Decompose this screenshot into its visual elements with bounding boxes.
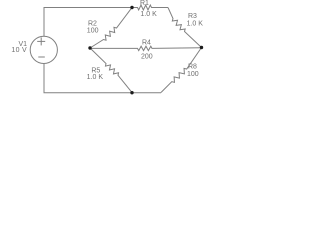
resistor R1 xyxy=(132,5,168,10)
label R3 value xyxy=(187,13,204,28)
wire top from V1 to node A xyxy=(44,8,132,37)
label V1 value xyxy=(11,41,27,54)
svg-text:1.0 K: 1.0 K xyxy=(187,21,204,28)
label R4 value xyxy=(141,40,153,61)
svg-text:R1: R1 xyxy=(140,0,149,7)
node D junction dot xyxy=(130,91,133,94)
svg-text:10 V: 10 V xyxy=(11,47,27,54)
svg-text:R4: R4 xyxy=(142,40,151,47)
svg-text:100: 100 xyxy=(187,71,199,78)
svg-text:200: 200 xyxy=(141,54,153,61)
svg-text:100: 100 xyxy=(87,28,99,35)
label R2 value xyxy=(87,20,99,34)
resistor R2 xyxy=(90,8,132,49)
label R8 value xyxy=(187,64,199,79)
resistor R4 xyxy=(90,46,202,50)
svg-text:1.0 K: 1.0 K xyxy=(87,74,104,81)
svg-text:R2: R2 xyxy=(88,20,97,27)
resistor R8 xyxy=(161,48,202,93)
svg-text:R8: R8 xyxy=(188,64,197,71)
voltage source V1 xyxy=(30,36,57,63)
svg-text:R3: R3 xyxy=(188,13,197,20)
svg-text:1.0 K: 1.0 K xyxy=(140,11,157,18)
node C junction dot xyxy=(200,46,203,49)
label R1 value xyxy=(140,0,157,18)
resistor R3 xyxy=(168,8,202,48)
wire bottom from V1 to node D xyxy=(44,64,161,93)
label R5 value xyxy=(87,67,104,81)
node B junction dot xyxy=(88,46,91,49)
node A junction dot xyxy=(130,6,133,9)
resistor R5 xyxy=(90,48,132,93)
